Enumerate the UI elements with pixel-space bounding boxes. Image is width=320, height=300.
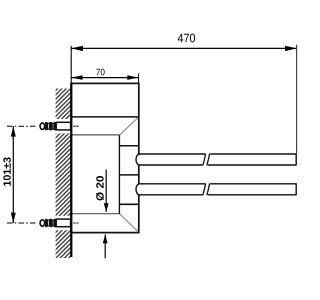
wall face line [70, 83, 72, 257]
dimension Ø20 upper arrow line [105, 170, 107, 212]
screw 2 head and shaft [40, 219, 56, 227]
hub bottom line [119, 203, 138, 205]
wall hole bottom [55, 216, 71, 230]
screw 1 anchor sleeve [56, 122, 70, 130]
post outer body [71, 83, 139, 232]
dimension 470 line [71, 47, 297, 49]
dimension 101±3 line [12, 126, 14, 223]
dimension 101±3 bottom arrow [11, 213, 16, 223]
dimension Ø20 upper arrowhead [104, 203, 109, 212]
towel bar 1 [136, 154, 296, 165]
screw 1 centerline right [73, 125, 78, 127]
towel bar 2 break gap [202, 183, 210, 196]
towel bar 2 break cut right [207, 183, 210, 195]
dimension 470 right extension line [296, 45, 298, 154]
dimension 70 right extension line [138, 73, 140, 83]
dimension 470 right arrow [285, 46, 297, 51]
dimension 470 text [178, 34, 195, 43]
screw 2 anchor sleeve [56, 219, 70, 227]
wall hatch [56, 89, 72, 259]
screw 1 head and shaft [40, 122, 56, 130]
dimension 70 left arrow [71, 75, 82, 80]
screw 2 centerline left [7, 222, 37, 224]
hub middle line [119, 174, 138, 176]
screw 2 centerline right [73, 222, 78, 224]
chamfer top diagonal [119, 118, 138, 136]
chamfer bottom diagonal [119, 214, 138, 232]
wall hole top [55, 119, 71, 133]
towel bar 2 [136, 184, 296, 195]
front face right edge [118, 135, 120, 214]
front face bottom edge [71, 213, 119, 215]
towel bar 1 break cut right [207, 154, 210, 166]
dimension 101±3 text [3, 157, 11, 185]
dimension Ø20 lower arrow line [104, 234, 106, 258]
towel bar 1 break cut left [203, 154, 206, 166]
dimension 470 left arrow [71, 46, 83, 51]
dimension 101±3 top arrow [11, 126, 16, 136]
dimension 70 text [96, 69, 104, 76]
dimension 70 right arrow [127, 75, 138, 80]
front face top edge [71, 134, 119, 136]
towel bar 1 break gap [202, 153, 210, 166]
dimension 70 line [71, 77, 138, 79]
470 left extension line [70, 46, 72, 84]
screw 1 centerline left [7, 125, 37, 127]
hub top line [119, 145, 138, 147]
post upper edge line [71, 116, 139, 118]
towel bar 2 break cut left [203, 183, 206, 195]
dimension Ø20 lower arrowhead [103, 234, 108, 243]
dimension Ø20 text [96, 176, 104, 201]
